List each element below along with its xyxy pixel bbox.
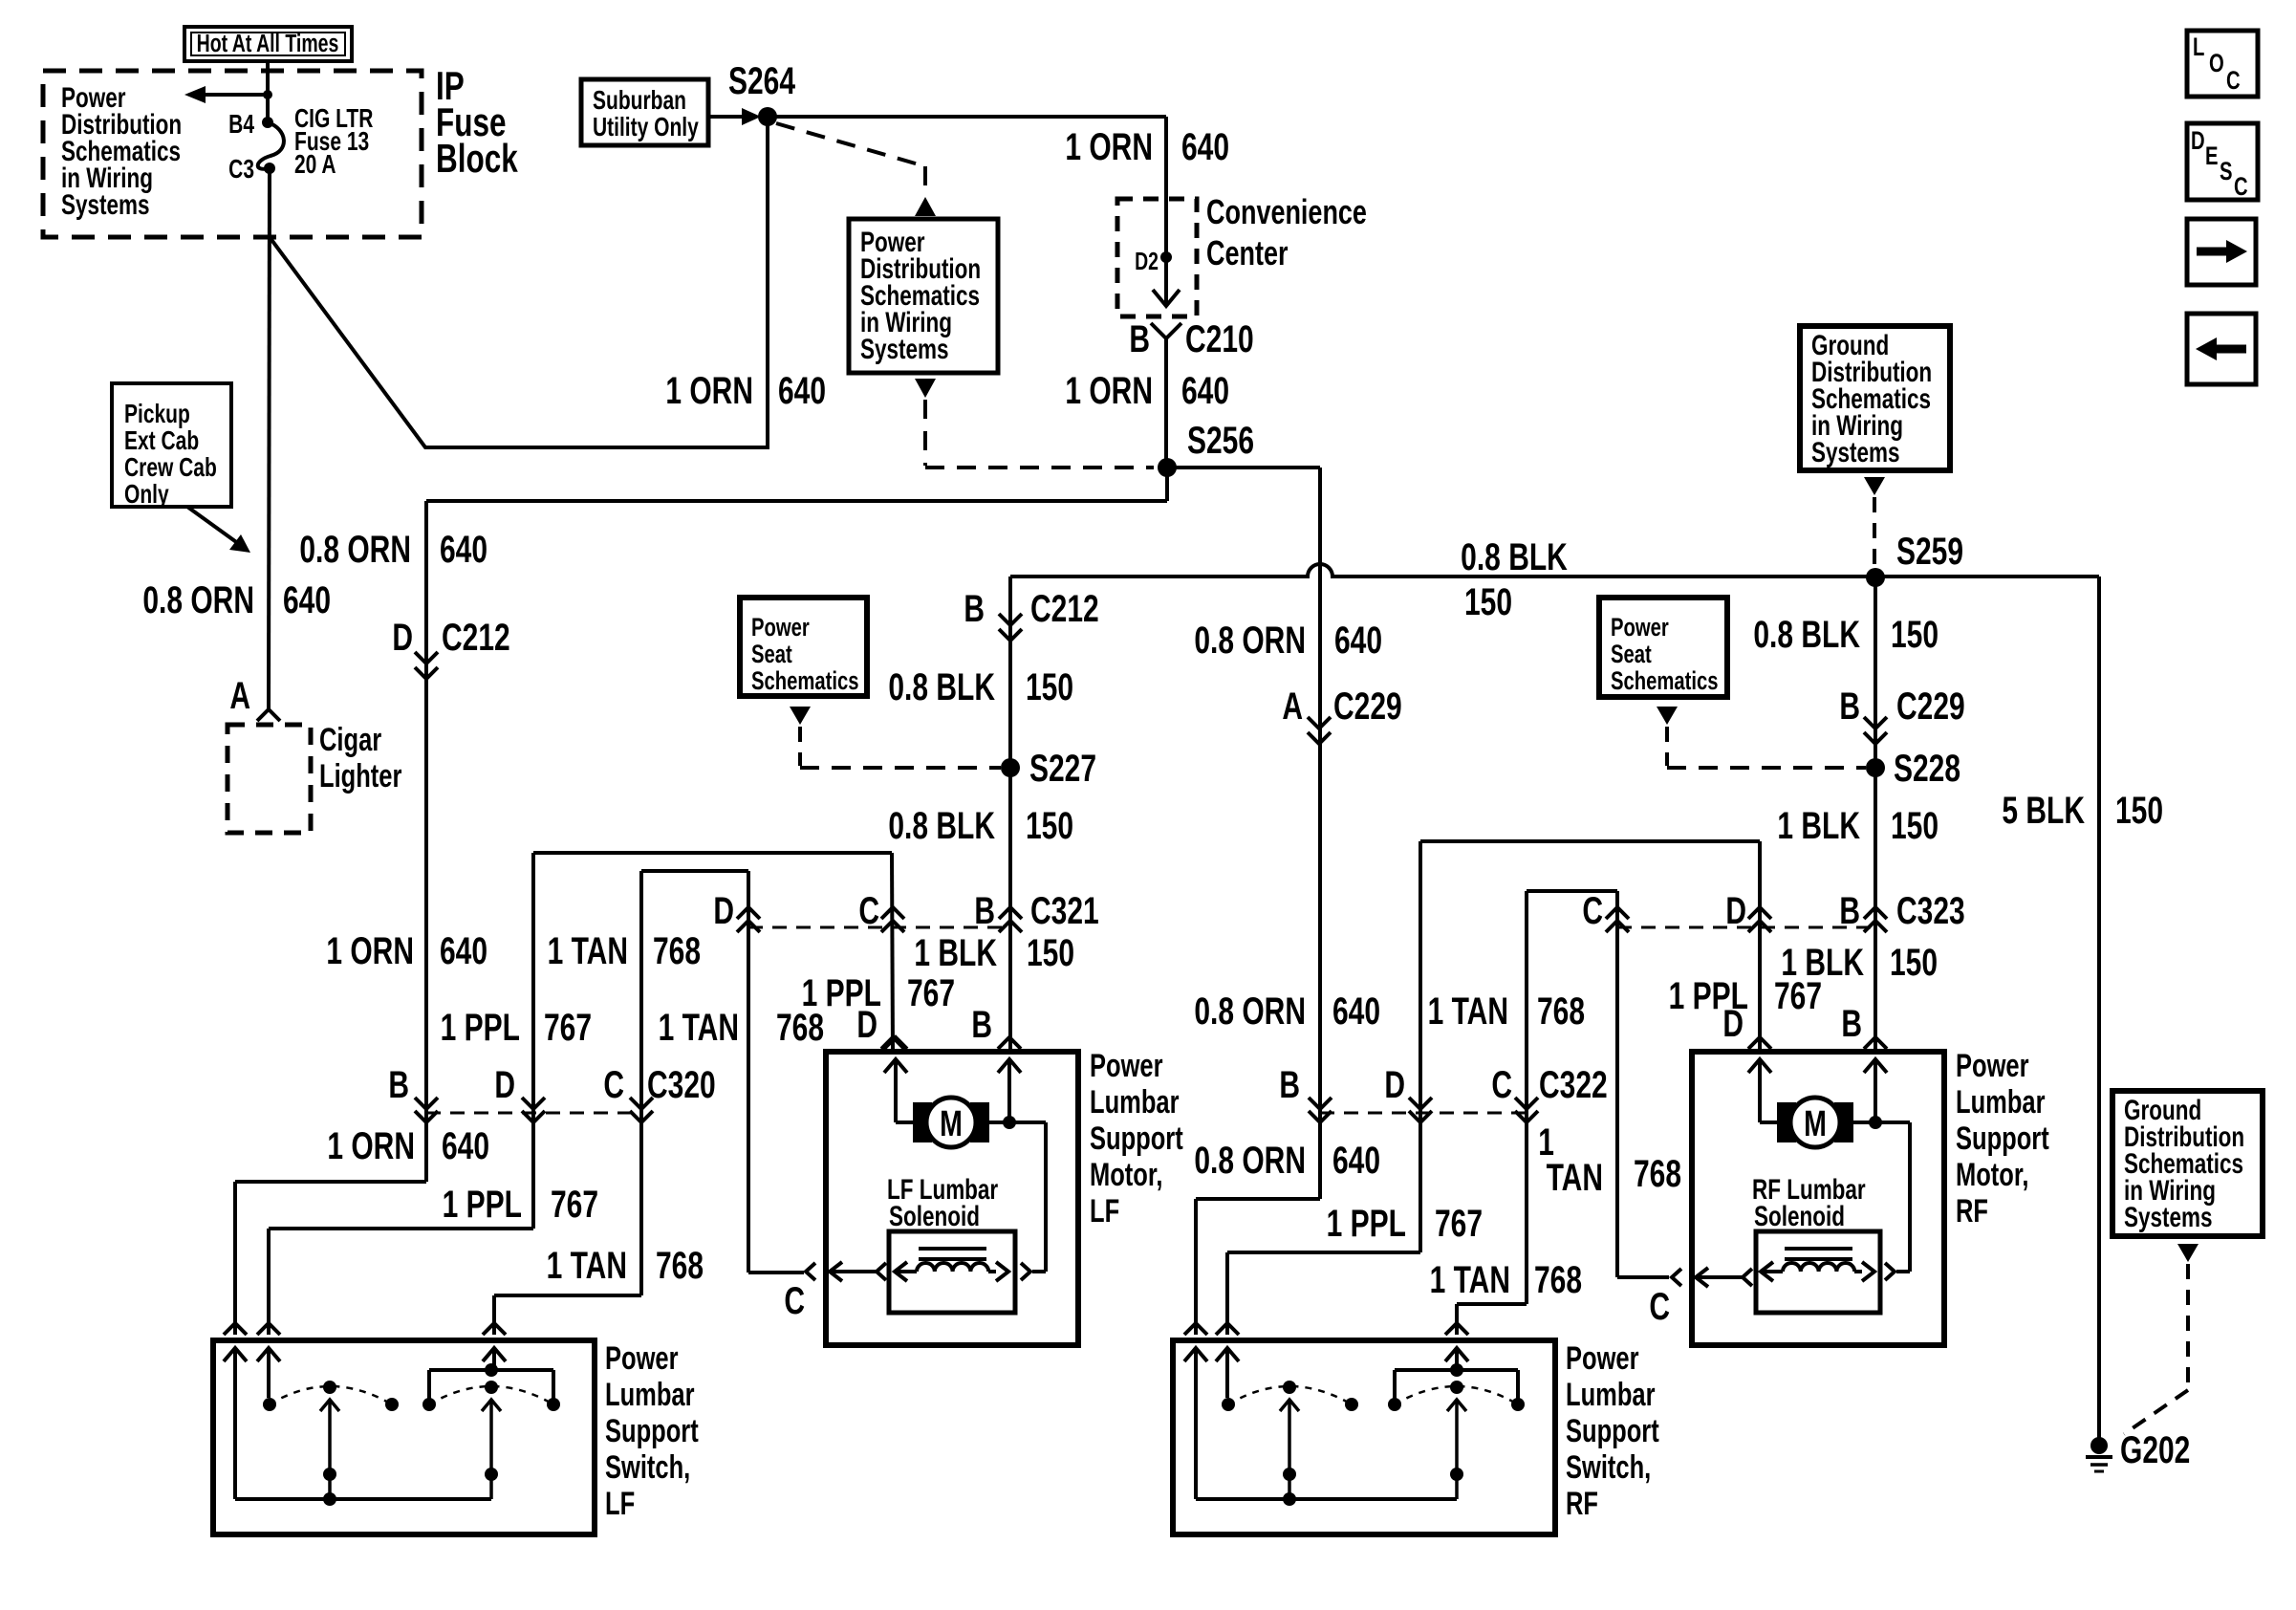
svg-text:A: A xyxy=(1282,685,1303,728)
svg-text:1 ORN: 1 ORN xyxy=(1065,126,1153,168)
svg-text:C321: C321 xyxy=(1030,890,1099,932)
svg-text:C212: C212 xyxy=(442,617,510,659)
svg-text:Lumbar: Lumbar xyxy=(1090,1085,1180,1120)
svg-text:1 BLK: 1 BLK xyxy=(914,932,997,974)
svg-text:Systems: Systems xyxy=(2124,1201,2213,1233)
svg-text:Convenience: Convenience xyxy=(1206,192,1367,231)
svg-text:S227: S227 xyxy=(1029,748,1096,790)
svg-text:Lumbar: Lumbar xyxy=(605,1378,695,1413)
svg-text:1 TAN: 1 TAN xyxy=(1428,990,1508,1033)
svg-text:Only: Only xyxy=(124,480,169,510)
svg-text:S264: S264 xyxy=(728,60,795,102)
svg-text:C: C xyxy=(2226,66,2241,96)
svg-text:S256: S256 xyxy=(1187,420,1254,462)
svg-text:Power: Power xyxy=(1566,1341,1639,1377)
svg-text:Motor,: Motor, xyxy=(1090,1158,1162,1193)
svg-text:RF: RF xyxy=(1566,1487,1598,1522)
svg-text:150: 150 xyxy=(2115,790,2163,832)
svg-text:1 BLK: 1 BLK xyxy=(1777,805,1860,847)
svg-text:Systems: Systems xyxy=(1811,436,1900,468)
svg-text:1 ORN: 1 ORN xyxy=(326,930,414,972)
svg-text:Switch,: Switch, xyxy=(1566,1450,1651,1486)
svg-text:TAN: TAN xyxy=(1547,1157,1603,1199)
svg-text:B: B xyxy=(974,890,995,932)
svg-text:C: C xyxy=(1649,1286,1670,1328)
svg-text:768: 768 xyxy=(653,930,701,972)
svg-text:B: B xyxy=(964,588,985,630)
svg-text:B: B xyxy=(1841,1003,1862,1045)
svg-text:S259: S259 xyxy=(1896,531,1963,573)
svg-text:G202: G202 xyxy=(2120,1429,2190,1471)
svg-text:768: 768 xyxy=(776,1007,824,1049)
svg-text:767: 767 xyxy=(1774,975,1822,1017)
svg-text:C: C xyxy=(603,1064,624,1106)
svg-text:640: 640 xyxy=(1181,126,1229,168)
svg-text:640: 640 xyxy=(1332,990,1380,1033)
svg-text:C: C xyxy=(784,1280,805,1322)
svg-text:D: D xyxy=(856,1004,877,1046)
svg-text:Solenoid: Solenoid xyxy=(1754,1200,1845,1232)
svg-text:C212: C212 xyxy=(1030,588,1099,630)
svg-text:768: 768 xyxy=(1534,1259,1582,1301)
svg-text:150: 150 xyxy=(1026,666,1073,708)
svg-text:0.8 BLK: 0.8 BLK xyxy=(888,805,995,847)
svg-text:1 TAN: 1 TAN xyxy=(659,1007,739,1049)
svg-text:D: D xyxy=(2191,126,2205,156)
svg-text:767: 767 xyxy=(551,1184,598,1226)
svg-text:D: D xyxy=(713,890,734,932)
svg-text:1 ORN: 1 ORN xyxy=(1065,370,1153,412)
svg-text:150: 150 xyxy=(1026,805,1073,847)
svg-text:640: 640 xyxy=(440,930,487,972)
svg-text:150: 150 xyxy=(1891,805,1939,847)
svg-text:Power: Power xyxy=(1611,613,1669,642)
svg-text:LF: LF xyxy=(605,1487,635,1522)
svg-text:150: 150 xyxy=(1891,614,1939,656)
svg-text:20 A: 20 A xyxy=(294,150,336,180)
svg-text:C323: C323 xyxy=(1896,890,1965,932)
svg-text:C3: C3 xyxy=(228,155,254,185)
svg-text:Systems: Systems xyxy=(61,188,150,221)
svg-text:D2: D2 xyxy=(1135,247,1159,274)
svg-text:A: A xyxy=(229,675,250,717)
svg-text:Utility Only: Utility Only xyxy=(593,113,699,142)
svg-text:Schematics: Schematics xyxy=(751,666,859,696)
svg-text:1 PPL: 1 PPL xyxy=(443,1184,522,1226)
svg-text:Suburban: Suburban xyxy=(593,86,686,116)
svg-text:767: 767 xyxy=(544,1007,592,1049)
svg-text:S228: S228 xyxy=(1894,748,1960,790)
svg-text:C229: C229 xyxy=(1333,685,1402,728)
svg-text:M: M xyxy=(1804,1104,1827,1144)
svg-text:Switch,: Switch, xyxy=(605,1450,690,1486)
svg-text:150: 150 xyxy=(1027,932,1074,974)
svg-text:768: 768 xyxy=(1634,1153,1681,1195)
svg-text:B: B xyxy=(971,1004,992,1046)
svg-text:Crew Cab: Crew Cab xyxy=(124,453,217,483)
svg-text:S: S xyxy=(2220,157,2233,186)
svg-text:M: M xyxy=(940,1104,963,1144)
svg-text:C: C xyxy=(858,890,879,932)
svg-text:640: 640 xyxy=(283,579,331,621)
svg-text:640: 640 xyxy=(1181,370,1229,412)
svg-text:Power: Power xyxy=(1956,1049,2029,1084)
svg-text:Pickup: Pickup xyxy=(124,400,190,429)
svg-text:5 BLK: 5 BLK xyxy=(2002,790,2085,832)
svg-text:B: B xyxy=(1129,318,1150,360)
svg-text:640: 640 xyxy=(778,370,826,412)
svg-text:0.8 BLK: 0.8 BLK xyxy=(1461,536,1568,578)
svg-text:Support: Support xyxy=(1566,1414,1659,1449)
svg-text:150: 150 xyxy=(1464,581,1512,623)
svg-text:0.8 ORN: 0.8 ORN xyxy=(142,579,254,621)
svg-text:Cigar: Cigar xyxy=(319,723,381,758)
svg-text:1 TAN: 1 TAN xyxy=(548,930,628,972)
svg-text:C: C xyxy=(2234,172,2248,202)
svg-text:C: C xyxy=(1582,890,1603,932)
svg-text:1 TAN: 1 TAN xyxy=(547,1245,627,1287)
svg-text:0.8 ORN: 0.8 ORN xyxy=(1194,620,1306,662)
svg-text:Seat: Seat xyxy=(1611,640,1652,669)
svg-text:B4: B4 xyxy=(228,110,254,140)
svg-text:Motor,: Motor, xyxy=(1956,1158,2028,1193)
svg-text:0.8 ORN: 0.8 ORN xyxy=(1194,1140,1306,1182)
svg-text:768: 768 xyxy=(656,1245,704,1287)
svg-text:C229: C229 xyxy=(1896,685,1965,728)
svg-text:0.8 ORN: 0.8 ORN xyxy=(1194,990,1306,1033)
svg-text:C320: C320 xyxy=(647,1064,716,1106)
svg-text:D: D xyxy=(1384,1064,1405,1106)
svg-text:C210: C210 xyxy=(1185,318,1254,360)
svg-text:RF: RF xyxy=(1956,1194,1988,1229)
svg-text:1 PPL: 1 PPL xyxy=(1327,1203,1406,1245)
svg-text:640: 640 xyxy=(442,1125,489,1167)
svg-text:B: B xyxy=(1839,685,1860,728)
svg-text:640: 640 xyxy=(1332,1140,1380,1182)
svg-text:E: E xyxy=(2205,141,2219,171)
svg-text:D: D xyxy=(1722,1003,1744,1045)
svg-text:D: D xyxy=(1725,890,1746,932)
svg-text:0.8 BLK: 0.8 BLK xyxy=(888,666,995,708)
svg-text:Support: Support xyxy=(1090,1121,1183,1157)
svg-text:Power: Power xyxy=(1090,1049,1163,1084)
svg-text:Solenoid: Solenoid xyxy=(889,1200,980,1232)
svg-text:Lighter: Lighter xyxy=(319,759,402,794)
svg-text:1 ORN: 1 ORN xyxy=(327,1125,415,1167)
svg-text:Support: Support xyxy=(1956,1121,2049,1157)
svg-text:640: 640 xyxy=(440,529,487,571)
svg-text:0.8 BLK: 0.8 BLK xyxy=(1753,614,1860,656)
svg-text:B: B xyxy=(1839,890,1860,932)
svg-text:1 ORN: 1 ORN xyxy=(665,370,753,412)
svg-text:640: 640 xyxy=(1334,620,1382,662)
svg-text:150: 150 xyxy=(1890,942,1938,984)
svg-text:Systems: Systems xyxy=(860,333,949,365)
svg-text:767: 767 xyxy=(1435,1203,1483,1245)
svg-text:L: L xyxy=(2193,33,2204,62)
svg-text:0.8 ORN: 0.8 ORN xyxy=(299,529,411,571)
svg-text:C: C xyxy=(1491,1064,1512,1106)
svg-text:1 TAN: 1 TAN xyxy=(1430,1259,1510,1301)
svg-text:Support: Support xyxy=(605,1414,699,1449)
svg-text:Center: Center xyxy=(1206,233,1288,272)
svg-text:D: D xyxy=(392,617,413,659)
svg-text:Ext Cab: Ext Cab xyxy=(124,426,199,456)
svg-text:D: D xyxy=(494,1064,515,1106)
svg-text:Hot At All Times: Hot At All Times xyxy=(197,29,339,56)
svg-text:Schematics: Schematics xyxy=(1611,666,1719,696)
svg-text:767: 767 xyxy=(907,972,955,1014)
svg-text:Block: Block xyxy=(436,136,518,182)
svg-text:768: 768 xyxy=(1537,990,1585,1033)
svg-text:C322: C322 xyxy=(1539,1064,1608,1106)
svg-text:Power: Power xyxy=(605,1341,679,1377)
svg-text:B: B xyxy=(388,1064,409,1106)
svg-text:Power: Power xyxy=(751,613,810,642)
svg-text:O: O xyxy=(2209,49,2224,78)
svg-text:1 PPL: 1 PPL xyxy=(441,1007,520,1049)
svg-text:Lumbar: Lumbar xyxy=(1956,1085,2046,1120)
svg-text:Seat: Seat xyxy=(751,640,792,669)
svg-text:LF: LF xyxy=(1090,1194,1119,1229)
svg-text:Lumbar: Lumbar xyxy=(1566,1378,1656,1413)
svg-text:B: B xyxy=(1279,1064,1300,1106)
